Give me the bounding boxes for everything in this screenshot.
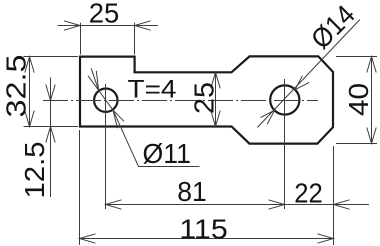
svg-text:25: 25	[89, 0, 120, 29]
svg-text:32.5: 32.5	[1, 55, 32, 118]
dim Ø14 leader	[257, 20, 360, 128]
hole left Ø11	[94, 89, 117, 112]
dim Ø11 leader	[88, 68, 200, 166]
dim 115 bottom	[80, 130, 334, 245]
dim 40 right	[336, 57, 377, 144]
dim 22 bottom right	[285, 200, 370, 209]
centerline horizontal	[43, 100, 318, 102]
svg-text:81: 81	[177, 176, 207, 207]
svg-text:115: 115	[179, 214, 228, 245]
svg-text:25: 25	[189, 82, 220, 114]
part outline	[80, 56, 333, 143]
centerline left hole vertical	[105, 84, 107, 209]
dim 25 middle vertical	[211, 72, 220, 126]
hole right Ø14	[270, 85, 299, 114]
dim 81 bottom	[106, 200, 285, 209]
svg-text:22: 22	[294, 177, 323, 208]
dim 25 top	[58, 21, 159, 55]
svg-text:Ø11: Ø11	[143, 138, 192, 169]
centerline right hole vertical	[284, 79, 286, 209]
dim 12.5 left	[46, 78, 55, 198]
svg-text:12.5: 12.5	[19, 142, 50, 199]
dim 32.5 left	[24, 57, 79, 127]
svg-text:40: 40	[343, 83, 374, 116]
svg-text:Ø14: Ø14	[305, 0, 361, 55]
svg-text:T=4: T=4	[128, 75, 177, 103]
